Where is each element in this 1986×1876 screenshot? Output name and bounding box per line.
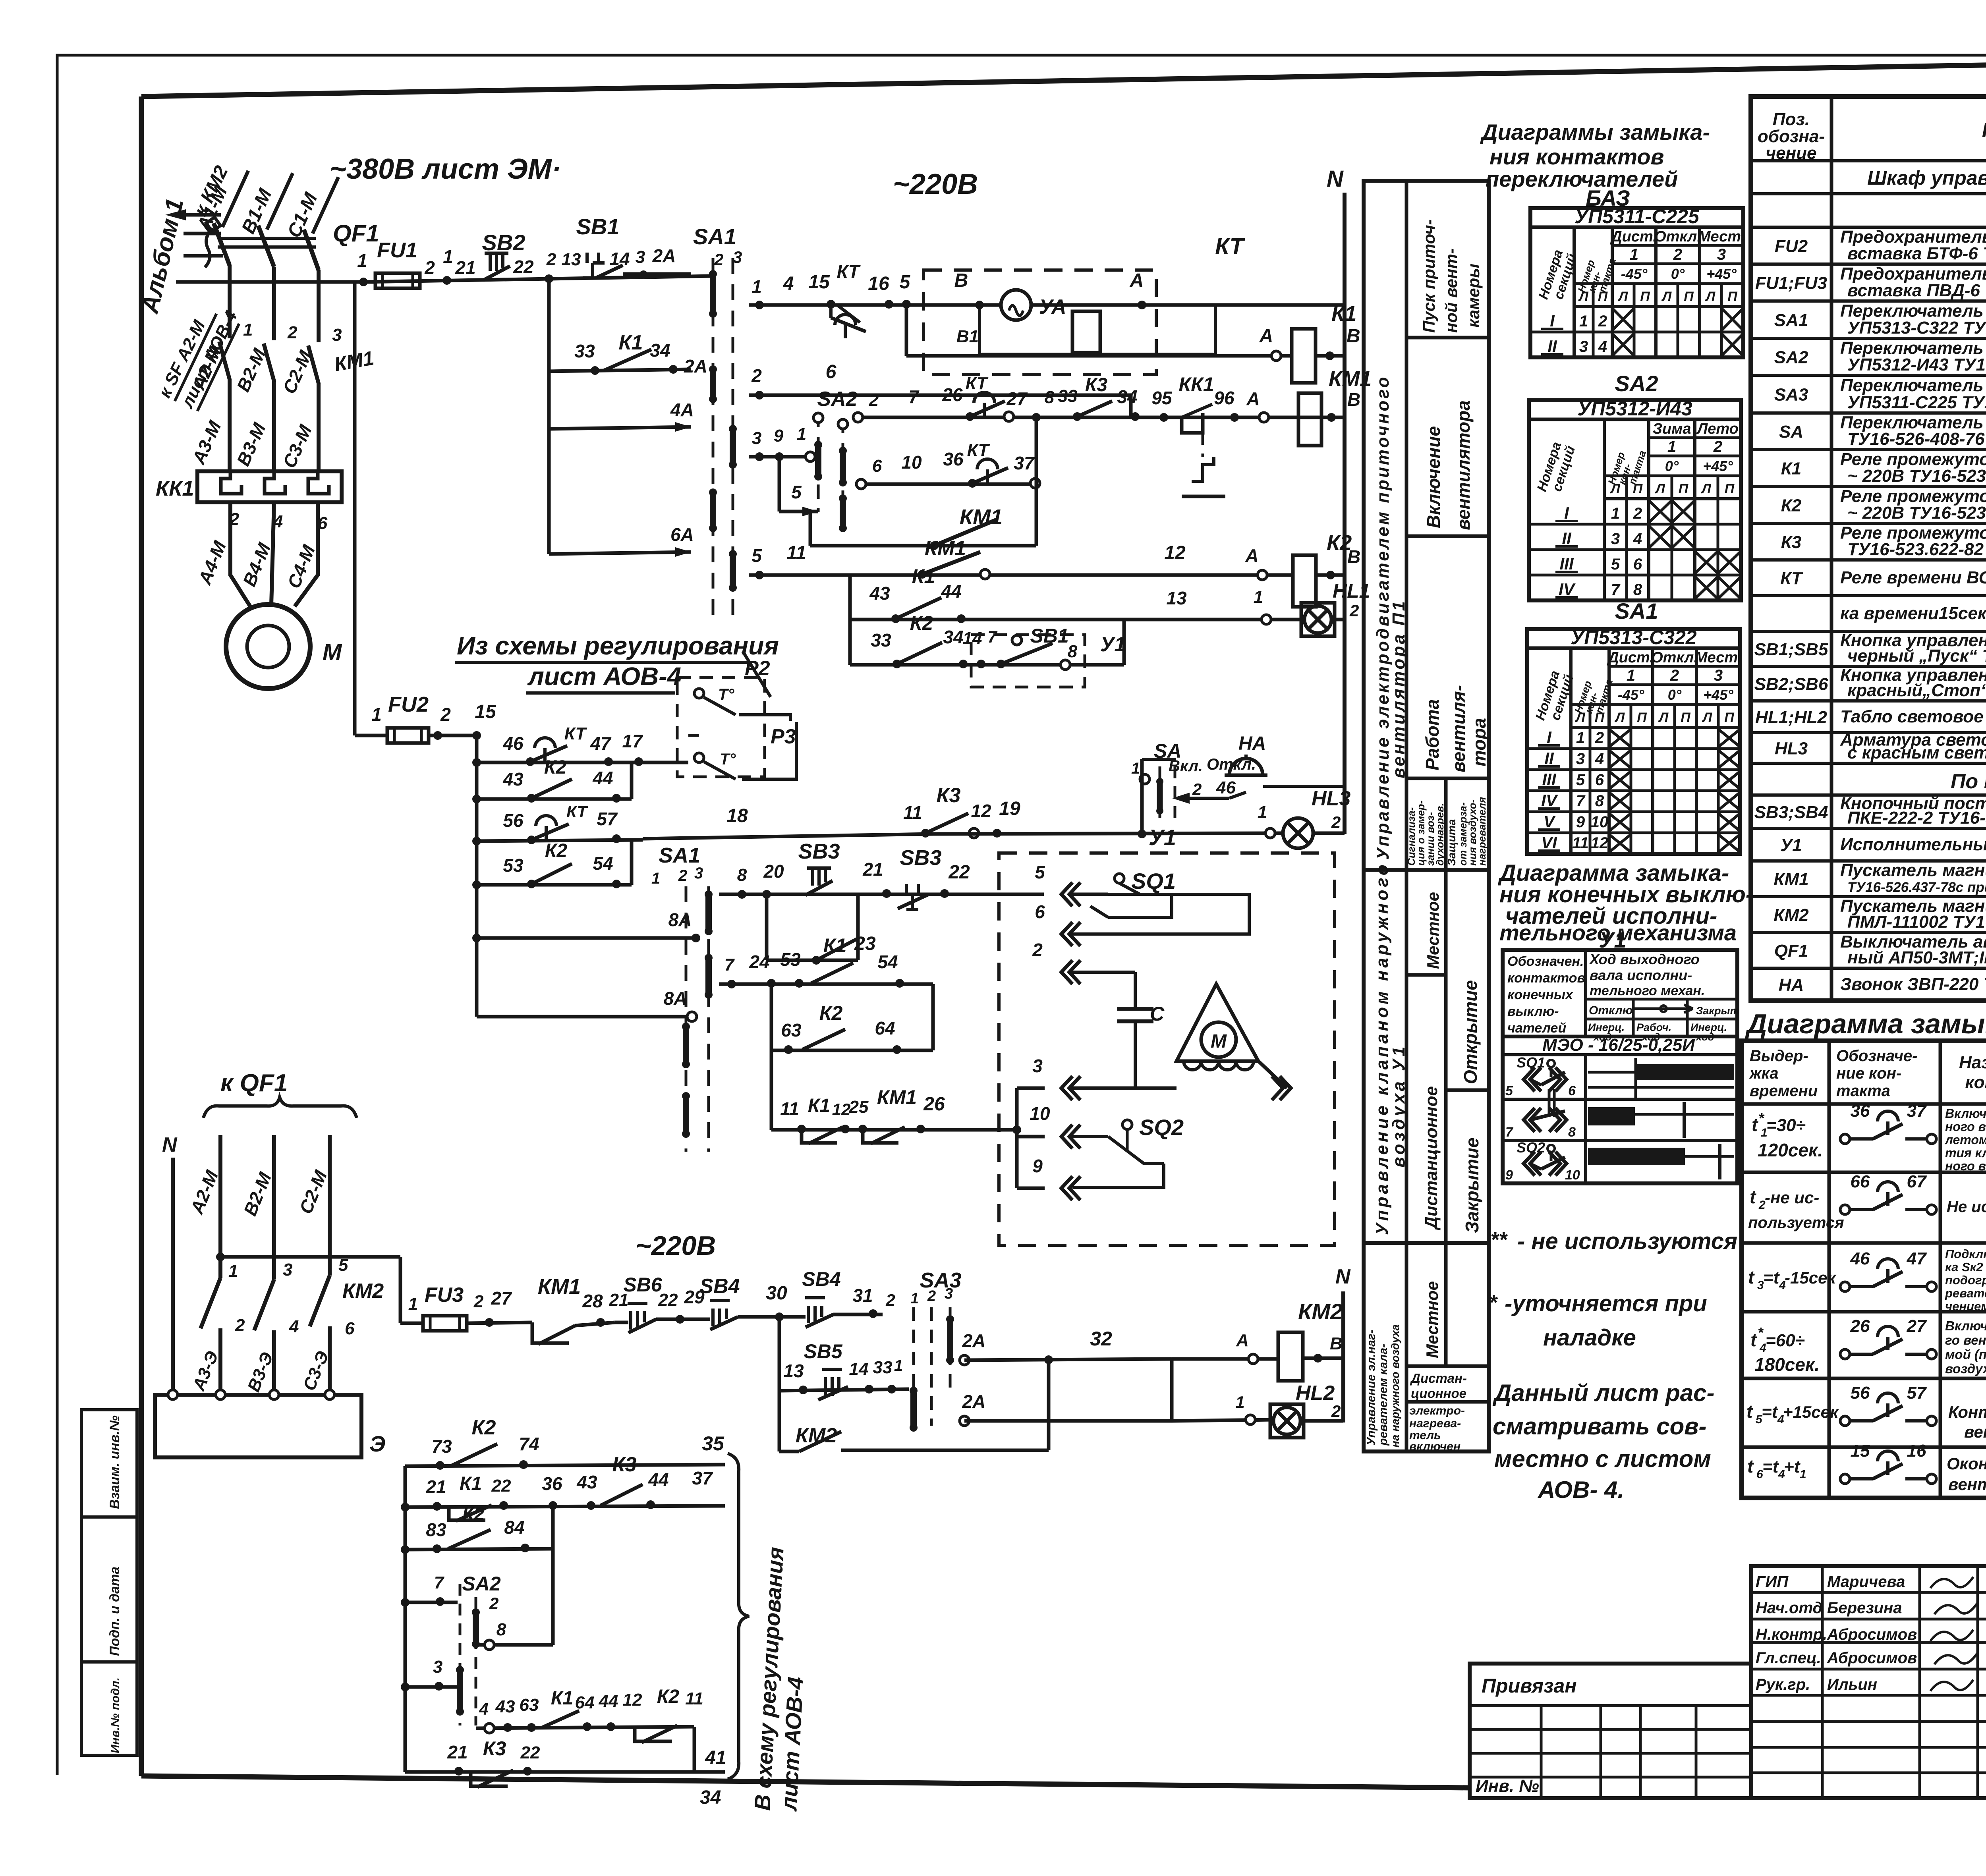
- svg-text:А: А: [1245, 545, 1258, 566]
- svg-text:4: 4: [1633, 530, 1642, 548]
- wire KK1 to motor A: [230, 502, 250, 606]
- svg-text:П: П: [1679, 481, 1689, 496]
- wire N lower: [171, 1158, 175, 1395]
- svg-text:-45°: -45°: [1618, 687, 1644, 703]
- svg-text:64: 64: [875, 1018, 895, 1038]
- svg-text:К2: К2: [1781, 496, 1802, 515]
- svg-text:HL3: HL3: [1775, 739, 1808, 759]
- KK1 heater element C: [308, 471, 329, 494]
- svg-text:1: 1: [357, 250, 367, 271]
- svg-text:36: 36: [943, 449, 964, 469]
- wire node5: [778, 457, 781, 511]
- wire 46 to bell to N: [1184, 797, 1229, 800]
- svg-text:вала исполни-: вала исполни-: [1590, 967, 1692, 983]
- svg-text:Зима: Зима: [1653, 421, 1691, 437]
- svg-text:4: 4: [1595, 750, 1604, 768]
- svg-text:4: 4: [289, 1317, 299, 1336]
- svg-text:SB6: SB6: [623, 1274, 662, 1296]
- svg-text:Л: Л: [1617, 289, 1628, 304]
- svg-text:2: 2: [546, 250, 556, 269]
- rung 53-K2-54: [477, 883, 632, 887]
- svg-text:КТ: КТ: [966, 374, 989, 393]
- svg-text:Включение: Включение: [1423, 426, 1444, 528]
- svg-text:А3-Э: А3-Э: [189, 1348, 222, 1393]
- svg-text:1: 1: [408, 1294, 418, 1314]
- svg-text:Данный лист рас-: Данный лист рас-: [1492, 1380, 1714, 1406]
- svg-text:Окончание пуска: Окончание пуска: [1947, 1454, 1986, 1473]
- svg-text:8: 8: [1045, 388, 1055, 407]
- svg-text:2: 2: [678, 867, 687, 884]
- svg-text:3: 3: [752, 428, 761, 448]
- rung 46-KT-47-17 wire: [477, 761, 688, 764]
- svg-text:=60÷: =60÷: [1766, 1331, 1805, 1350]
- svg-text:SВ3;SВ4: SВ3;SВ4: [1754, 803, 1828, 822]
- svg-text:33: 33: [1058, 386, 1078, 406]
- svg-text:~380В лист ЭМ·: ~380В лист ЭМ·: [330, 153, 561, 185]
- svg-text:9: 9: [1576, 813, 1585, 831]
- svg-text:чателей: чателей: [1507, 1021, 1566, 1036]
- svg-text:11: 11: [786, 542, 806, 564]
- svg-text:Э: Э: [369, 1431, 385, 1456]
- svg-text:Включение приточ-: Включение приточ-: [1945, 1106, 1986, 1121]
- svg-text:HL3: HL3: [1312, 787, 1350, 810]
- svg-text:8А: 8А: [664, 988, 687, 1009]
- svg-text:QF1: QF1: [1774, 941, 1808, 961]
- svg-text:95: 95: [1151, 388, 1173, 408]
- svg-text:2А: 2А: [652, 245, 676, 266]
- rung 63-K2-64 wire: [771, 1049, 933, 1052]
- svg-text:120сек.: 120сек.: [1758, 1140, 1823, 1160]
- svg-text:1: 1: [1630, 246, 1638, 263]
- svg-text:*: *: [1758, 1110, 1765, 1126]
- svg-text:SА2: SА2: [462, 1573, 500, 1595]
- svg-text:FU3: FU3: [425, 1283, 464, 1307]
- svg-text:6: 6: [826, 361, 837, 382]
- svg-text:к QF1: к QF1: [220, 1069, 288, 1097]
- svg-text:Дистан-: Дистан-: [1410, 1371, 1467, 1386]
- svg-text:27: 27: [1006, 388, 1028, 409]
- svg-text:КК1: КК1: [156, 477, 194, 500]
- svg-text:КТ: КТ: [1215, 234, 1245, 259]
- svg-text:1: 1: [1611, 505, 1620, 522]
- rung 43-K2-44: [477, 797, 632, 801]
- svg-text:-уточняется при: -уточняется при: [1505, 1291, 1707, 1316]
- branch wires to KM2 with arrows: [184, 213, 221, 217]
- svg-text:У1: У1: [1100, 633, 1126, 656]
- svg-text:HL1;HL2: HL1;HL2: [1755, 708, 1827, 727]
- fuse FU2: [355, 734, 387, 737]
- bus wire x1200: [475, 735, 479, 1017]
- svg-text:1: 1: [1667, 438, 1676, 455]
- svg-text:III: III: [1542, 770, 1556, 789]
- svg-text:III: III: [1559, 554, 1574, 573]
- svg-text:Взаим. инв.№: Взаим. инв.№: [107, 1415, 122, 1509]
- svg-text:7: 7: [987, 627, 997, 646]
- svg-text:53: 53: [780, 949, 801, 970]
- svg-text:SA1: SA1: [659, 843, 700, 867]
- control rail wire: [176, 280, 375, 284]
- svg-text:67: 67: [1907, 1172, 1927, 1191]
- svg-text:-15сек: -15сек: [1785, 1268, 1836, 1287]
- svg-text:У1: У1: [1780, 836, 1802, 855]
- rung 18 wire: [643, 834, 933, 839]
- svg-text:С2-М: С2-М: [295, 1167, 331, 1216]
- svg-text:Дист.: Дист.: [1610, 228, 1657, 245]
- svg-text:П: П: [1727, 289, 1738, 304]
- svg-text:63: 63: [520, 1695, 539, 1715]
- svg-text:5: 5: [900, 272, 911, 293]
- svg-text:6: 6: [345, 1319, 355, 1338]
- limit switch SQ1: [1115, 874, 1124, 883]
- svg-text:20: 20: [763, 861, 784, 882]
- svg-text:электро-: электро-: [1409, 1404, 1465, 1417]
- svg-text:5: 5: [1576, 771, 1585, 789]
- svg-text:4: 4: [479, 1700, 488, 1718]
- svg-text:вентилятора: вентилятора: [1453, 400, 1474, 530]
- svg-text:К1: К1: [808, 1095, 830, 1116]
- svg-text:ка времени15сек ÷ 9мин. ТУ16-6: ка времени15сек ÷ 9мин. ТУ16-647.026-86: [1840, 604, 1986, 623]
- svg-text:SQ1: SQ1: [1131, 869, 1176, 894]
- svg-text:74: 74: [519, 1434, 539, 1454]
- svg-text:2: 2: [440, 704, 451, 725]
- svg-text:К3: К3: [483, 1737, 506, 1760]
- svg-text:В2-М: В2-М: [233, 345, 270, 395]
- svg-text:12: 12: [623, 1690, 642, 1710]
- wire 34-95 to KK1 contact: [1131, 416, 1345, 419]
- svg-text:5: 5: [1505, 1083, 1513, 1098]
- svg-text:2: 2: [927, 1288, 936, 1305]
- svg-text:9: 9: [1032, 1156, 1043, 1176]
- MEO row borders: [1503, 1098, 1737, 1101]
- svg-text:15: 15: [475, 701, 496, 722]
- svg-text:Не используется: Не используется: [1947, 1198, 1986, 1216]
- MEO bar row3: [1588, 1148, 1685, 1165]
- svg-text:1: 1: [1258, 803, 1267, 822]
- drawing frame: [141, 55, 1986, 97]
- svg-text:Р3: Р3: [771, 725, 796, 748]
- MEO bar row2: [1588, 1107, 1635, 1125]
- svg-text:КМ2: КМ2: [342, 1280, 384, 1303]
- wire 19 to HL3: [933, 833, 1284, 834]
- svg-text:УП5311-С225 ТУ16-524.074-: УП5311-С225 ТУ16-524.074-75: [1847, 393, 1986, 412]
- svg-text:2: 2: [1713, 438, 1722, 455]
- svg-text:В2-М: В2-М: [240, 1169, 276, 1218]
- svg-text:SB1: SB1: [576, 214, 620, 239]
- heater box E: [155, 1395, 361, 1457]
- svg-text:4: 4: [783, 273, 794, 294]
- svg-text:НА: НА: [1779, 975, 1804, 995]
- svg-text:сматривать сов-: сматривать сов-: [1493, 1413, 1706, 1440]
- phase wires to KM2: [218, 1135, 222, 1278]
- svg-text:27: 27: [1907, 1316, 1927, 1336]
- svg-text:3: 3: [1611, 530, 1620, 548]
- svg-text:Поз.: Поз.: [1773, 110, 1810, 129]
- svg-text:54: 54: [593, 853, 613, 874]
- svg-text:Маричева: Маричева: [1827, 1573, 1905, 1590]
- svg-text:тора: тора: [1469, 718, 1489, 766]
- svg-text:1: 1: [910, 1290, 919, 1307]
- rung 56-KT-57: [477, 840, 643, 841]
- rung U1 solenoid SB1 wire: [850, 663, 1124, 667]
- svg-text:МЭО - 16/25-0,25И: МЭО - 16/25-0,25И: [1542, 1035, 1695, 1055]
- svg-text:вставка ПВД-6 ТУ16-522. 011: вставка ПВД-6 ТУ16-522. 011-74.: [1847, 281, 1986, 300]
- svg-text:УП5311-С225: УП5311-С225: [1575, 205, 1700, 228]
- svg-text:С2-М: С2-М: [279, 347, 316, 397]
- svg-text:6А: 6А: [670, 524, 694, 545]
- svg-text:В3-М: В3-М: [233, 419, 270, 469]
- svg-text:П: П: [1640, 289, 1650, 304]
- svg-text:SА3: SА3: [920, 1268, 961, 1292]
- svg-text:Н.контр.: Н.контр.: [1756, 1626, 1827, 1643]
- svg-text:Звонок ЗВП-220 ТУ16-739: Звонок ЗВП-220 ТУ16-739.059-76: [1840, 975, 1986, 994]
- svg-text:Л: Л: [1578, 289, 1588, 304]
- svg-text:*: *: [1489, 1291, 1498, 1314]
- privyazan box: [1470, 1664, 1751, 1798]
- svg-text:выклю-: выклю-: [1507, 1004, 1559, 1019]
- svg-text:2А: 2А: [684, 356, 707, 376]
- svg-text:К3: К3: [612, 1453, 637, 1476]
- tap wire to FU3: [220, 1255, 400, 1259]
- svg-text:37: 37: [1907, 1101, 1927, 1121]
- svg-text:SA2: SA2: [817, 388, 857, 411]
- svg-text:44: 44: [599, 1691, 618, 1711]
- svg-text:34: 34: [700, 1787, 721, 1808]
- KK1 heater element A: [221, 471, 241, 494]
- svg-text:Л: Л: [1575, 710, 1585, 725]
- svg-text:19: 19: [999, 798, 1020, 819]
- svg-text:10: 10: [1591, 813, 1609, 831]
- svg-text:SB5: SB5: [804, 1340, 842, 1363]
- svg-text:Работа: Работа: [1422, 699, 1443, 770]
- svg-text:2: 2: [1032, 940, 1043, 960]
- svg-text:2: 2: [1331, 813, 1341, 832]
- svg-text:8А: 8А: [668, 909, 692, 930]
- wire drop to HL1 rung: [848, 575, 852, 665]
- svg-text:Переключатель универсальный: Переключатель универсальный: [1840, 376, 1986, 395]
- svg-text:Л: Л: [1661, 289, 1672, 304]
- svg-text:FU1;FU3: FU1;FU3: [1755, 274, 1827, 293]
- svg-text:37: 37: [1014, 453, 1035, 473]
- svg-text:10: 10: [1565, 1168, 1580, 1183]
- svg-text:22: 22: [520, 1743, 540, 1762]
- svg-text:С3-М: С3-М: [279, 421, 316, 471]
- svg-text:У1: У1: [1149, 825, 1176, 850]
- svg-text:УП5313-С322 ТУ16-524.074: УП5313-С322 ТУ16-524.074-75: [1847, 318, 1986, 338]
- phase conductor A: [228, 265, 232, 338]
- svg-text:С1-М: С1-М: [284, 189, 322, 241]
- svg-text:пользуется: пользуется: [1748, 1214, 1844, 1231]
- svg-text:9: 9: [1505, 1168, 1513, 1183]
- svg-text:+45°: +45°: [1703, 458, 1733, 474]
- svg-text:1: 1: [1579, 313, 1588, 330]
- svg-text:44: 44: [592, 768, 613, 788]
- svg-text:27: 27: [491, 1288, 512, 1309]
- svg-text:К2: К2: [819, 1002, 843, 1024]
- svg-text:~ 220В ТУ16: ~ 220В ТУ16-523.622-82: [1847, 503, 1986, 523]
- svg-text:+45°: +45°: [1703, 687, 1733, 703]
- svg-text:10: 10: [1030, 1103, 1050, 1124]
- svg-text:Табло световое ТСМ~220В ТУ16-5: Табло световое ТСМ~220В ТУ16-535.424-70: [1840, 707, 1986, 726]
- svg-text:Инв. №: Инв. №: [1476, 1776, 1539, 1796]
- parts list table frame: [1751, 97, 1986, 1001]
- svg-text:летом после откры-: летом после откры-: [1944, 1133, 1986, 1147]
- svg-text:11: 11: [903, 802, 922, 823]
- svg-text:7: 7: [1505, 1125, 1514, 1140]
- svg-text:11: 11: [1572, 834, 1589, 852]
- svg-text:Мест.: Мест.: [1698, 228, 1745, 245]
- svg-text:2А: 2А: [962, 1330, 986, 1351]
- svg-text:53: 53: [503, 855, 524, 876]
- rung 6-10-36-KT-37 wire: [857, 483, 1036, 486]
- wire vertical node8: [1035, 417, 1038, 546]
- svg-text:2: 2: [1633, 505, 1642, 522]
- svg-text:~220В: ~220В: [893, 168, 978, 200]
- svg-text:11: 11: [685, 1689, 703, 1708]
- svg-text:венткамеры: венткамеры: [1948, 1475, 1986, 1494]
- svg-text:16: 16: [868, 273, 889, 294]
- svg-text:8: 8: [496, 1620, 506, 1639]
- svg-text:SА3: SА3: [1774, 385, 1808, 405]
- svg-text:II: II: [1544, 749, 1554, 768]
- thermal relay KK1 box: [197, 471, 342, 502]
- svg-text:2: 2: [869, 390, 879, 410]
- svg-text:Закрыт: Закрыт: [1696, 1005, 1740, 1017]
- svg-text:По месту: По месту: [1951, 770, 1986, 793]
- svg-text:44: 44: [648, 1469, 668, 1490]
- motor M: [226, 604, 310, 689]
- svg-text:0°: 0°: [1671, 266, 1685, 282]
- contactor KM1 main contact A: [219, 342, 230, 379]
- svg-text:FU2: FU2: [388, 693, 429, 716]
- svg-text:воздухонагревателя): воздухонагревателя): [1945, 1361, 1986, 1376]
- svg-text:Л: Л: [1705, 289, 1716, 304]
- svg-text:3: 3: [332, 325, 342, 345]
- svg-text:HL2: HL2: [1296, 1382, 1335, 1405]
- sub rung SA2-KT-K3 wire: [854, 416, 1131, 419]
- motor M delta winding: [1177, 984, 1258, 1061]
- svg-text:М: М: [1211, 1031, 1227, 1052]
- svg-text:22: 22: [513, 257, 534, 277]
- svg-text:УП5312-И43: УП5312-И43: [1577, 398, 1692, 420]
- svg-text:ПКЕ-222-2 ТУ16-526. 2: ПКЕ-222-2 ТУ16-526. 216-71: [1847, 808, 1986, 828]
- svg-text:30: 30: [766, 1283, 787, 1304]
- svg-text:УП5312-И43 ТУ16-524.074-: УП5312-И43 ТУ16-524.074-75: [1847, 355, 1986, 374]
- svg-text:46: 46: [1216, 778, 1236, 797]
- svg-text:вентилятора П1: вентилятора П1: [1389, 599, 1408, 778]
- svg-text:8: 8: [1633, 581, 1642, 598]
- svg-text:t: t: [1750, 1330, 1757, 1350]
- svg-text:на наружного воздуха: на наружного воздуха: [1389, 1324, 1401, 1448]
- svg-text:SB2: SB2: [482, 230, 525, 255]
- wire SK1 to rung16: [688, 734, 699, 737]
- svg-text:П: П: [1724, 710, 1735, 725]
- svg-text:вентиля-: вентиля-: [1448, 685, 1469, 772]
- svg-text:13: 13: [783, 1361, 804, 1381]
- svg-text:Абросимов: Абросимов: [1827, 1649, 1917, 1667]
- thermostat box SK1 SK2 dashed: [677, 677, 765, 777]
- svg-text:21: 21: [447, 1742, 468, 1762]
- svg-text:тия клапана наруж-: тия клапана наруж-: [1945, 1146, 1986, 1160]
- svg-text:41: 41: [705, 1747, 726, 1768]
- svg-text:Включение приточно-: Включение приточно-: [1945, 1318, 1986, 1333]
- svg-text:КТ: КТ: [566, 802, 588, 821]
- svg-text:2: 2: [489, 1594, 498, 1613]
- svg-text:7: 7: [908, 386, 920, 407]
- rung1 wire to N: [1156, 303, 1345, 307]
- svg-text:t: t: [1747, 1456, 1754, 1476]
- svg-text:Диаграмма замыкания контакто: Диаграмма замыкания контактов реле време…: [1745, 1008, 1986, 1039]
- relay contact K3 33-34: [1073, 412, 1082, 421]
- svg-text:37: 37: [692, 1468, 713, 1488]
- svg-text:КМ1: КМ1: [877, 1086, 917, 1108]
- svg-text:2: 2: [1331, 1402, 1341, 1421]
- svg-text:2: 2: [885, 1291, 895, 1309]
- svg-text:2: 2: [1598, 313, 1607, 330]
- svg-text:1: 1: [1800, 1468, 1806, 1481]
- svg-text:1: 1: [228, 1261, 238, 1281]
- QF1 blade C: [304, 230, 319, 270]
- ladder rung 21-K3-22 wire: [405, 1770, 725, 1774]
- svg-text:1: 1: [1131, 760, 1140, 777]
- MEO bar row1: [1636, 1064, 1734, 1080]
- svg-text:чением вентилятора: чением вентилятора: [1945, 1299, 1986, 1313]
- svg-text:7: 7: [1611, 581, 1621, 598]
- svg-text:=t: =t: [1762, 1402, 1779, 1422]
- rung K2 wire 5-11-KM1-12: [749, 573, 1293, 577]
- svg-text:ТУ16-526.437-78с приставкой ПК: ТУ16-526.437-78с приставкой ПКЛ-2204;ТУ1…: [1847, 880, 1986, 895]
- svg-text:12: 12: [1164, 542, 1186, 564]
- svg-text:В4-М: В4-М: [239, 539, 275, 589]
- svg-text:ния контактов: ния контактов: [1489, 144, 1664, 169]
- svg-text:*: *: [1758, 1324, 1764, 1341]
- wire KM1-26 into box: [1015, 1088, 1019, 1130]
- QF1 tie bar: [218, 237, 316, 240]
- svg-text:А3-М: А3-М: [188, 417, 225, 467]
- svg-text:2: 2: [714, 250, 723, 269]
- svg-text:-не ис-: -не ис-: [1765, 1188, 1819, 1207]
- svg-text:К1: К1: [823, 934, 847, 957]
- svg-text:VI: VI: [1541, 833, 1557, 852]
- svg-text:Т°: Т°: [720, 751, 736, 768]
- svg-text:ГИП: ГИП: [1756, 1573, 1789, 1590]
- svg-text:1: 1: [752, 276, 762, 297]
- svg-text:22: 22: [948, 862, 970, 883]
- svg-text:Т°: Т°: [718, 686, 734, 703]
- svg-text:КМ1: КМ1: [1773, 870, 1808, 889]
- svg-text:К1: К1: [551, 1688, 573, 1709]
- rung 8A upper wire: [477, 936, 696, 940]
- svg-text:КТ: КТ: [564, 724, 587, 743]
- svg-text:31: 31: [852, 1285, 873, 1306]
- svg-text:22: 22: [658, 1290, 678, 1310]
- svg-text:ный АП50-3МТ;Iн=25а ТУ16-522.1: ный АП50-3МТ;Iн=25а ТУ16-522.139-78: [1847, 948, 1986, 967]
- svg-text:Подп. и дата: Подп. и дата: [107, 1567, 122, 1656]
- svg-text:7: 7: [434, 1573, 445, 1592]
- svg-text:контакта: контакта: [1965, 1073, 1986, 1092]
- svg-text:3: 3: [1579, 338, 1588, 355]
- svg-text:1: 1: [243, 320, 253, 340]
- svg-text:Привязан: Привязан: [1482, 1675, 1577, 1697]
- svg-text:15: 15: [808, 272, 830, 293]
- svg-text:Л: Л: [1702, 710, 1712, 725]
- contactor KM1 main contact B: [264, 344, 274, 381]
- rung 11-K1-25-KM1-26 wire: [771, 1128, 1017, 1132]
- svg-text:Дистанционное: Дистанционное: [1422, 1086, 1441, 1231]
- svg-text:SQ2: SQ2: [1139, 1115, 1184, 1140]
- svg-text:ного воздуха: ного воздуха: [1945, 1159, 1986, 1173]
- svg-text:4А: 4А: [670, 400, 694, 420]
- svg-text:QF1: QF1: [333, 220, 379, 247]
